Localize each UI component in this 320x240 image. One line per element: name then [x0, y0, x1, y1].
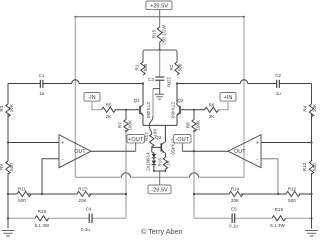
svg-text:2K: 2K	[106, 114, 113, 119]
wire: left zobel line	[8, 214, 126, 218]
op-amp U1	[59, 135, 91, 168]
svg-text:+29.5V: +29.5V	[150, 3, 168, 9]
svg-text:R5: R5	[106, 102, 112, 107]
wire: C3 to ground	[159, 80, 161, 94]
svg-text:10K: 10K	[312, 103, 317, 112]
box +IN	[220, 93, 236, 102]
svg-text:R14: R14	[231, 187, 240, 192]
resistor R2	[169, 62, 183, 75]
svg-text:20K: 20K	[78, 198, 87, 203]
wire: emitter bus	[143, 124, 177, 126]
resistor R7	[118, 110, 133, 131]
node: base wire to R7	[125, 109, 127, 111]
wire: Q3 collector to emitter bus	[164, 125, 166, 142]
top rail wire	[75, 16, 244, 18]
svg-text:5.1 3W: 5.1 3W	[270, 223, 285, 228]
svg-text:500: 500	[9, 163, 14, 171]
svg-text:C5: C5	[231, 207, 237, 212]
wire: Q2 emitter down	[176, 115, 178, 125]
wire: bias top bar	[143, 50, 177, 62]
node: R7 bottom	[125, 130, 127, 132]
wire hop (bottom rail over -OUT net)	[190, 173, 199, 178]
-29.5V supply box	[148, 185, 171, 194]
svg-text:-: -	[62, 157, 64, 163]
capacitor C2	[275, 73, 281, 96]
+29.5V supply box	[146, 1, 172, 10]
svg-text:R3: R3	[0, 105, 4, 111]
svg-text:500: 500	[143, 63, 148, 71]
svg-text:C2: C2	[275, 73, 281, 78]
wire: R17 bottom / Q3 base	[152, 146, 161, 152]
svg-text:Q2: Q2	[177, 98, 184, 103]
wire: Q1 collector	[142, 84, 144, 105]
wire: Q1 emitter down	[142, 115, 144, 125]
wire: bias bottom bar	[154, 169, 166, 171]
transistor Q1	[134, 98, 151, 119]
svg-text:R11: R11	[18, 187, 27, 192]
node: -input to feedback	[41, 193, 43, 195]
wire: Q3 emitter to R16	[164, 153, 166, 157]
svg-text:500: 500	[288, 198, 296, 203]
svg-text:C4: C4	[86, 207, 92, 212]
op-amp U2	[228, 135, 261, 168]
resistor R15	[152, 25, 167, 45]
node: feedback to +OUT net	[125, 193, 127, 195]
node: -OUT net at output	[193, 150, 195, 152]
right frame wire	[243, 17, 245, 178]
wire: Q2 collector	[176, 84, 178, 105]
svg-text:R12: R12	[288, 187, 297, 192]
node: feedback to -OUT net	[193, 193, 195, 195]
wire: +OUT stub	[135, 143, 137, 151]
wire: R15 to bias top	[159, 42, 161, 50]
svg-text:+OUT: +OUT	[128, 137, 144, 143]
svg-text:0.1u: 0.1u	[81, 227, 90, 232]
resistor R4	[303, 103, 317, 117]
svg-text:R15: R15	[152, 29, 157, 38]
svg-text:100K: 100K	[196, 119, 201, 131]
wire: right op-amp -input	[261, 159, 278, 194]
node: +OUT net at output	[125, 150, 127, 152]
svg-text:R18: R18	[38, 209, 47, 214]
svg-text:R8: R8	[186, 122, 191, 128]
svg-text:R9: R9	[0, 164, 4, 170]
svg-text:R16: R16	[158, 158, 163, 167]
wire: C3 jog to bias chain	[153, 88, 160, 90]
wire: right zobel line	[194, 214, 312, 218]
node: +in right rail	[310, 141, 312, 143]
ground (right rail)	[305, 231, 318, 237]
svg-text:R19: R19	[275, 207, 284, 212]
node: R2/Q2 at input line	[176, 82, 178, 84]
wire: +IN stub	[219, 101, 229, 110]
wire: R6 to Q2 base	[181, 109, 205, 111]
diode D2 (1N914)	[145, 152, 156, 171]
resistor R13	[77, 187, 91, 203]
resistor R18	[35, 209, 50, 228]
svg-text:500: 500	[312, 163, 317, 171]
svg-text:+: +	[256, 141, 259, 147]
left frame wire	[74, 17, 76, 178]
node: right rail zobel	[310, 217, 312, 219]
wire: -OUT stub	[181, 143, 183, 151]
resistor R16	[158, 157, 171, 169]
resistor R5	[102, 102, 116, 119]
svg-text:R10: R10	[302, 162, 307, 171]
svg-text:R4: R4	[303, 105, 308, 111]
resistor R17	[144, 128, 157, 147]
node: R1/Q1 at input line	[142, 82, 144, 84]
node: R8 bottom	[193, 130, 195, 132]
svg-text:R7: R7	[118, 122, 123, 128]
svg-text:R2: R2	[169, 64, 174, 70]
svg-text:1u: 1u	[276, 91, 282, 96]
wire: diode stack	[153, 153, 155, 171]
svg-text:220u: 220u	[166, 77, 171, 88]
svg-text:-29.5V: -29.5V	[151, 188, 168, 194]
wire: +29.5V stub	[159, 10, 161, 27]
resistor R11	[17, 187, 31, 203]
resistor R9	[0, 161, 14, 174]
wire: left feedback line	[8, 193, 126, 195]
wire: left input line	[8, 83, 143, 85]
wire: right rail	[311, 84, 313, 229]
resistor R10	[302, 161, 317, 174]
svg-text:C3: C3	[148, 77, 154, 82]
node: bias top junction	[159, 49, 161, 51]
node: right -input to feedback	[277, 193, 279, 195]
wire hop (input line over right frame)	[240, 80, 247, 84]
svg-text:100K: 100K	[128, 119, 133, 131]
svg-text:10K: 10K	[9, 103, 14, 112]
wire: -IN stub	[92, 101, 102, 110]
wire: left rail	[7, 84, 9, 229]
node: left rail feedback	[7, 193, 9, 195]
box +OUT	[127, 135, 145, 143]
wire: left op-amp +input	[8, 142, 59, 144]
svg-text:250 1/2W: 250 1/2W	[162, 25, 167, 45]
svg-text:1u: 1u	[39, 91, 45, 96]
svg-text:2K: 2K	[209, 114, 216, 119]
svg-text:1K: 1K	[166, 159, 171, 166]
svg-text:500: 500	[178, 63, 183, 71]
svg-text:-: -	[256, 157, 258, 163]
resistor R6	[205, 102, 219, 119]
wire: right input line	[177, 83, 312, 85]
transistor Q2	[170, 98, 184, 119]
resistor R19	[270, 207, 285, 228]
node: base wire to R8	[193, 109, 195, 111]
box -IN	[84, 93, 100, 102]
svg-text:-IN: -IN	[88, 95, 95, 101]
svg-text:R13: R13	[78, 187, 87, 192]
svg-text:+: +	[61, 141, 64, 147]
node: right rail feedback	[310, 193, 312, 195]
svg-text:© Terry Aben: © Terry Aben	[141, 227, 183, 236]
wire hop (bottom rail over +OUT net)	[122, 173, 131, 178]
wire: -OUT net vertical	[193, 131, 195, 218]
svg-text:ZTX450: ZTX450	[146, 102, 151, 119]
node: left rail zobel	[7, 217, 9, 219]
wire: +OUT net vertical	[125, 131, 127, 218]
resistor R3	[0, 103, 14, 117]
svg-text:Q3: Q3	[155, 135, 162, 140]
capacitor C5	[229, 207, 238, 229]
wire: right op-amp output	[182, 150, 228, 152]
resistor R8	[186, 110, 201, 131]
diode D1 (1N914)	[152, 154, 157, 158]
wire hop (input line over left frame)	[72, 80, 79, 84]
transistor Q3	[155, 135, 175, 155]
svg-text:C1: C1	[39, 73, 45, 78]
svg-text:+IN: +IN	[224, 95, 233, 101]
capacitor C3	[148, 50, 171, 88]
capacitor C1	[39, 73, 45, 96]
wire: left op-amp -input	[42, 159, 59, 194]
wire: -29.5V stub	[159, 171, 161, 185]
capacitor C4	[81, 207, 92, 232]
wire: right feedback line	[194, 193, 312, 195]
box -OUT	[174, 135, 192, 143]
svg-text:20K: 20K	[231, 198, 240, 203]
resistor R14	[229, 187, 243, 203]
ground (C3)	[155, 94, 164, 99]
wire: bias chain s-bend to R17	[149, 116, 153, 134]
svg-text:-OUT: -OUT	[175, 137, 189, 143]
svg-text:ZTX450: ZTX450	[170, 102, 175, 119]
bottom rail wire	[75, 176, 244, 178]
svg-text:R1: R1	[134, 64, 139, 70]
svg-text:2x1N914: 2x1N914	[145, 152, 150, 171]
svg-text:Q1: Q1	[134, 98, 141, 103]
wire: right op-amp +input	[261, 142, 312, 144]
svg-text:0.1u: 0.1u	[229, 224, 238, 229]
node: +in left rail	[7, 141, 9, 143]
svg-text:5.1 3W: 5.1 3W	[35, 223, 50, 228]
ground (left rail)	[2, 231, 15, 237]
svg-text:R6: R6	[209, 102, 215, 107]
resistor R1	[134, 62, 148, 75]
wire: left op-amp output	[91, 150, 136, 152]
wire: R5 to Q1 base	[116, 109, 140, 111]
svg-text:OUT: OUT	[74, 149, 86, 155]
resistor R12	[286, 187, 300, 203]
svg-text:500: 500	[18, 198, 26, 203]
svg-text:OUT: OUT	[234, 149, 246, 155]
